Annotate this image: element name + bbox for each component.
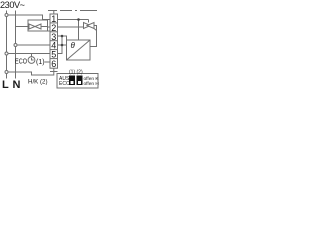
svg-text:(1): (1) — [36, 59, 45, 66]
svg-text:(1) (2): (1) (2) — [69, 70, 83, 76]
svg-text:230V~: 230V~ — [0, 0, 25, 10]
svg-text:6: 6 — [51, 59, 56, 69]
svg-text:L: L — [2, 79, 9, 91]
svg-text:ECO: ECO — [15, 58, 27, 65]
svg-text:N: N — [13, 79, 21, 91]
svg-text:ECO: ECO — [59, 81, 70, 87]
svg-text:offen H: offen H — [84, 81, 100, 87]
svg-text:θ: θ — [71, 41, 76, 50]
svg-text:H/K (2): H/K (2) — [28, 78, 48, 85]
